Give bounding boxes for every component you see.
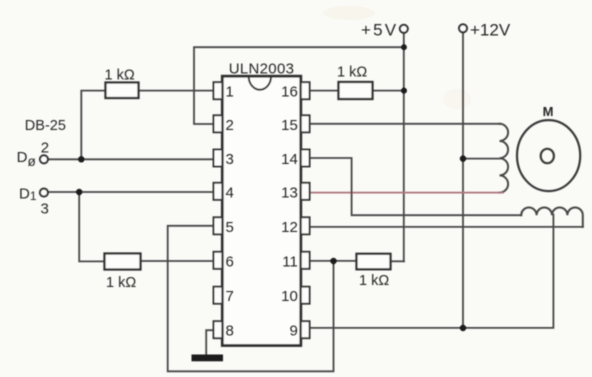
- wire D1 node down to R2: [79, 192, 104, 261]
- pin 15: [301, 115, 310, 132]
- wire pin 8 to ground: [206, 330, 213, 355]
- node: +12V / pin 9 junction: [460, 325, 466, 331]
- terminal D0: [40, 155, 48, 163]
- wire pin 9 to coil center tap: [310, 215, 554, 328]
- svg-text:1: 1: [226, 84, 234, 101]
- faint scan smudge top: [323, 6, 375, 20]
- wire R4 right to +5V rail bottom: [391, 260, 405, 262]
- pin 11: [301, 252, 310, 269]
- resistor 1 kOhm (pin 16 to +5V): [339, 82, 373, 99]
- pin 5: [214, 217, 223, 234]
- wire pin 16 to R3: [310, 90, 339, 92]
- svg-text:6: 6: [226, 253, 234, 270]
- wire R1 left to D0 node: [81, 91, 105, 160]
- svg-text:1 kΩ: 1 kΩ: [105, 68, 135, 84]
- pin 1: [214, 82, 223, 99]
- svg-text:+5V: +5V: [361, 21, 398, 40]
- svg-text:10: 10: [281, 288, 298, 305]
- pin 9: [301, 321, 310, 338]
- terminal +5V: [400, 25, 408, 33]
- pin 3: [214, 150, 223, 167]
- wire pin 14 to horizontal winding: [310, 158, 522, 215]
- faint scan smudge right: [443, 89, 471, 109]
- wire pin 13 to winding bottom (red): [310, 192, 504, 194]
- svg-text:14: 14: [281, 151, 298, 168]
- IC U1 ULN2003 body: [222, 76, 300, 345]
- wire pin 2 loop to +5V rail: [194, 47, 404, 124]
- pin 2: [214, 115, 223, 132]
- svg-text:1 kΩ: 1 kΩ: [337, 65, 367, 81]
- resistor 1 kOhm (D0 to pin 1): [106, 83, 139, 99]
- pin 14: [301, 150, 310, 167]
- pin 8: [214, 321, 223, 338]
- node: pin 11 junction: [330, 258, 336, 264]
- pin 16: [301, 82, 310, 99]
- node: D1 junction: [76, 189, 82, 195]
- motor M outer circle: [517, 120, 580, 191]
- svg-text:D1: D1: [19, 186, 37, 204]
- wire D1 to pin 4: [48, 191, 213, 193]
- pin 7: [214, 287, 223, 304]
- svg-text:11: 11: [282, 253, 298, 270]
- svg-text:9: 9: [289, 323, 297, 340]
- node: +12V / center tap junction: [460, 155, 466, 161]
- ground: [192, 355, 224, 362]
- wire pin 5 bottom loop to pin 11 node: [168, 226, 334, 371]
- motor M shaft circle: [541, 149, 554, 163]
- wire R2 right to pin 6: [141, 260, 214, 262]
- pin 13: [301, 183, 310, 200]
- inductor L1 vertical motor winding: [500, 124, 509, 193]
- node: D0 junction: [78, 156, 84, 162]
- pin 12: [301, 217, 310, 234]
- inductor L2 horizontal motor winding: [521, 207, 583, 226]
- pin 6: [214, 252, 223, 269]
- wire R1 right to pin 1: [139, 90, 214, 92]
- node: +5V / R3 junction: [401, 88, 407, 94]
- svg-text:13: 13: [281, 184, 298, 201]
- svg-text:1 kΩ: 1 kΩ: [359, 273, 389, 289]
- wire pin 11 to R4: [310, 260, 357, 262]
- resistor 1 kOhm (pin 11 to +5V): [357, 254, 391, 269]
- svg-text:3: 3: [226, 151, 234, 168]
- svg-text:DB-25: DB-25: [25, 118, 66, 134]
- pin 10: [301, 287, 310, 304]
- wire +5V vertical rail: [403, 33, 405, 261]
- wire D0 to pin 3: [48, 158, 213, 160]
- svg-text:1 kΩ: 1 kΩ: [106, 275, 136, 291]
- svg-text:8: 8: [226, 323, 234, 340]
- wire +12V vertical rail: [462, 33, 464, 329]
- pin 4: [214, 183, 223, 200]
- resistor 1 kOhm (D1 to pin 6): [105, 254, 141, 270]
- svg-text:3: 3: [41, 201, 49, 218]
- IC U1 notch: [249, 78, 271, 90]
- svg-text:12: 12: [281, 219, 298, 236]
- wire R3 to +5V rail: [373, 90, 405, 92]
- svg-text:ULN2003: ULN2003: [229, 61, 294, 78]
- svg-text:+12V: +12V: [470, 21, 511, 40]
- wire pin 15 to winding top: [310, 123, 500, 125]
- svg-text:M: M: [543, 104, 554, 119]
- node: +5V top junction: [401, 44, 407, 50]
- svg-text:15: 15: [281, 117, 298, 134]
- terminal +12V: [459, 24, 467, 32]
- svg-text:5: 5: [226, 219, 234, 236]
- svg-text:16: 16: [281, 84, 298, 101]
- svg-text:7: 7: [226, 288, 234, 305]
- svg-text:4: 4: [226, 184, 234, 201]
- svg-text:2: 2: [226, 117, 234, 134]
- wire +12V to winding center tap: [463, 158, 500, 160]
- terminal D1: [40, 189, 48, 197]
- wire pin 12 to winding right end: [310, 226, 583, 228]
- svg-text:2: 2: [41, 140, 49, 157]
